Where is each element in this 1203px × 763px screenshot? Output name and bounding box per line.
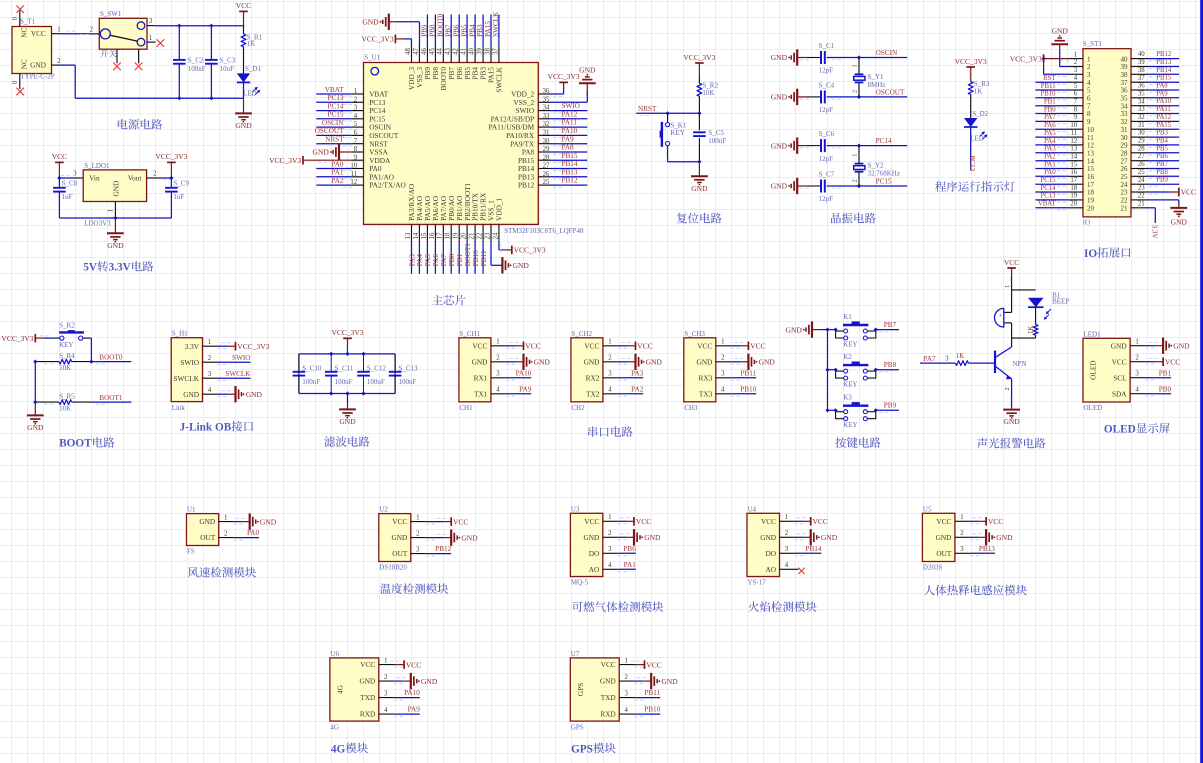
- wire S_C4 left: [798, 96, 821, 98]
- wire net PC14 at ST1 pin 18: [1035, 192, 1068, 194]
- no-connect T1 top: [16, 5, 24, 13]
- wire net PB8 at ST1 pin 25: [1147, 176, 1179, 178]
- svg-text:OUT: OUT: [392, 549, 408, 558]
- wire net PB4 at ST1 pin 29: [1147, 145, 1179, 147]
- svg-text:VCC: VCC: [1165, 357, 1180, 366]
- wire keys bus: [813, 330, 836, 411]
- svg-text:32: 32: [543, 121, 550, 128]
- svg-text:KEY: KEY: [843, 421, 857, 429]
- svg-text:PC15: PC15: [876, 178, 892, 186]
- svg-text:10K: 10K: [59, 405, 71, 413]
- svg-text:3: 3: [73, 171, 77, 178]
- svg-text:PB14: PB14: [562, 160, 578, 168]
- svg-text:GND: GND: [579, 65, 596, 74]
- svg-text:VCC: VCC: [636, 517, 651, 526]
- U1 pin 4 PC15: [351, 113, 386, 124]
- svg-text:3: 3: [496, 371, 500, 378]
- svg-text:2: 2: [852, 90, 859, 93]
- svg-text:38: 38: [1138, 67, 1145, 74]
- svg-text:39: 39: [1121, 63, 1129, 71]
- wire LDO bottom rail: [59, 217, 171, 219]
- svg-text:GND: GND: [759, 358, 776, 367]
- svg-text:1: 1: [624, 657, 627, 664]
- connector S_CH2: [571, 330, 603, 412]
- wire emitter to GND: [1004, 379, 1012, 409]
- title 可燃气体检测模块: [572, 601, 583, 611]
- svg-text:1: 1: [354, 88, 357, 95]
- svg-text:VCC: VCC: [813, 517, 828, 526]
- svg-text:LED1: LED1: [1084, 330, 1102, 338]
- U1 pin 20 PB2/BOOT1: [461, 224, 468, 241]
- wire K3 to PB9: [876, 410, 899, 412]
- connector U7: [570, 650, 619, 731]
- svg-text:1: 1: [851, 154, 858, 157]
- wire net SWIO at U1 pin 34: [551, 111, 588, 113]
- junction Y1 top: [857, 55, 861, 59]
- svg-text:0: 0: [12, 80, 19, 84]
- svg-text:100nF: 100nF: [302, 378, 320, 386]
- U1 pin 36 VDD_2: [511, 88, 550, 99]
- svg-text:1: 1: [224, 514, 227, 521]
- S_CH2 pin 4 wire: [603, 387, 643, 397]
- svg-text:RST: RST: [1043, 75, 1056, 82]
- ST1 pin 14: [1068, 154, 1095, 166]
- S_H1 pin 1 wire: [203, 339, 236, 349]
- U1 pin 21 PB10/TX: [469, 224, 476, 241]
- wire net PB10 at ST1 pin 6: [1035, 98, 1068, 100]
- svg-text:PB10: PB10: [1040, 91, 1056, 98]
- junction filter C11 top: [329, 352, 333, 356]
- svg-text:S_C10: S_C10: [302, 364, 322, 372]
- svg-text:2: 2: [608, 530, 612, 537]
- svg-text:KEY: KEY: [59, 341, 73, 349]
- svg-text:S_C2: S_C2: [188, 57, 204, 65]
- svg-text:S_H1: S_H1: [172, 330, 188, 338]
- svg-text:KEY: KEY: [670, 129, 684, 137]
- wire net PB5 at ST1 pin 28: [1147, 153, 1179, 155]
- ST1 pin 7: [1068, 99, 1091, 111]
- U1 pin 40 PB4: [469, 46, 476, 63]
- wire net PA11 at U1 pin 32: [551, 127, 588, 129]
- power flag VCC at S_CH3 pin 1: [748, 342, 765, 351]
- U6 pin 1 wire: [379, 657, 404, 667]
- svg-text:1: 1: [1074, 51, 1077, 58]
- SW1 pin 1: [147, 35, 156, 42]
- U4 pin 4 wire: [780, 562, 799, 569]
- wire net PB1 at U1 pin 19: [458, 241, 459, 273]
- T1 pin 2: [52, 58, 62, 65]
- power flag VCC_3V3 indicator: [955, 57, 987, 81]
- connector S_H1: [171, 330, 202, 412]
- svg-text:4: 4: [608, 562, 612, 569]
- svg-text:U1: U1: [187, 506, 196, 514]
- S_CH1 pin 4 wire: [491, 387, 531, 397]
- svg-text:PA12: PA12: [1156, 114, 1171, 121]
- U7 pin 1 wire: [619, 657, 644, 667]
- wire net OSCOUT at U1 pin 6: [316, 135, 352, 137]
- svg-text:28: 28: [543, 154, 550, 161]
- capacitor C4: [819, 81, 835, 114]
- svg-text:OSCOUT: OSCOUT: [315, 127, 344, 135]
- wire net RST at ST1 pin 4: [1035, 82, 1068, 84]
- power flag VCC at S_CH1 pin 1: [524, 342, 541, 351]
- junction NRST at R2: [697, 111, 701, 115]
- svg-text:DO: DO: [589, 549, 600, 558]
- ST1 pin 35: [1121, 90, 1148, 102]
- svg-text:GND: GND: [235, 121, 252, 130]
- ground at U1 VSSA: [313, 144, 339, 160]
- ST1 pin 9: [1068, 114, 1091, 126]
- svg-text:100nF: 100nF: [399, 378, 417, 386]
- wire S_C4 to crystal: [800, 97, 907, 99]
- ST1 pin 15: [1068, 161, 1095, 173]
- U5 pin 1 wire: [955, 514, 986, 524]
- svg-text:U3: U3: [571, 505, 580, 513]
- U1 pin 43 PB7: [445, 46, 452, 63]
- U2 pin 2 wire: [411, 530, 451, 540]
- capacitor C8: [53, 178, 78, 218]
- svg-text:1uF: 1uF: [62, 193, 73, 201]
- svg-text:9: 9: [354, 154, 358, 161]
- wire net PA15 at ST1 pin 31: [1147, 129, 1179, 131]
- svg-text:OLED: OLED: [1104, 424, 1136, 436]
- ST1 pin 29: [1121, 138, 1148, 150]
- wire net PB6 at U1 pin 42: [458, 15, 459, 48]
- ground at S_H1 pin 4: [236, 386, 263, 402]
- wire net PC14 at U1 pin 3: [316, 111, 352, 113]
- wire net PA4 at U1 pin 14: [418, 241, 419, 273]
- U1 pin 13 PA3/RX/AO: [405, 224, 412, 241]
- junction K3 right: [874, 408, 878, 412]
- SW1 pin 2: [90, 26, 100, 34]
- svg-text:NC: NC: [20, 59, 28, 69]
- U1 pin 30 PA9/TX: [510, 138, 550, 149]
- svg-text:19: 19: [453, 232, 460, 239]
- wire net PB9 at ST1 pin 24: [1147, 184, 1179, 186]
- pushbutton K3: [836, 394, 876, 429]
- svg-text:PB13: PB13: [562, 168, 578, 176]
- svg-text:34: 34: [543, 105, 550, 112]
- title 火焰检测模块: [748, 601, 759, 612]
- svg-text:39: 39: [476, 48, 483, 55]
- svg-text:VCC: VCC: [52, 152, 67, 161]
- svg-text:PA2/TX/AO: PA2/TX/AO: [369, 181, 406, 190]
- svg-text:25: 25: [1121, 173, 1129, 181]
- svg-text:3: 3: [1087, 71, 1091, 79]
- title 温度检测模块: [380, 583, 391, 593]
- title 复位电路: [677, 213, 687, 224]
- U1 pin 38 PA15: [484, 46, 491, 63]
- svg-text:VCC: VCC: [360, 660, 375, 669]
- svg-text:S_LDO1: S_LDO1: [84, 162, 110, 170]
- svg-text:K1: K1: [843, 313, 852, 321]
- svg-text:GND: GND: [461, 533, 478, 542]
- svg-text:PA5: PA5: [1044, 130, 1056, 137]
- svg-text:22: 22: [1121, 197, 1129, 205]
- svg-text:PA0: PA0: [247, 529, 260, 537]
- svg-text:16: 16: [1087, 173, 1095, 181]
- svg-text:VCC: VCC: [1004, 258, 1019, 267]
- power flag VCC at S_CH2 pin 1: [636, 342, 653, 351]
- svg-text:PA8: PA8: [1156, 83, 1168, 90]
- svg-text:S_U1: S_U1: [364, 54, 380, 62]
- svg-text:12: 12: [350, 179, 357, 186]
- ST1 pin 22: [1121, 193, 1148, 205]
- svg-text:1: 1: [496, 339, 499, 346]
- wire net PA3 at ST1 pin 13: [1035, 153, 1068, 155]
- svg-text:VCC_3V3: VCC_3V3: [1, 334, 33, 343]
- svg-text:VCC: VCC: [936, 517, 951, 526]
- svg-text:S_C1: S_C1: [819, 42, 835, 50]
- svg-text:PA10: PA10: [562, 127, 578, 135]
- svg-text:38: 38: [1121, 71, 1129, 79]
- svg-text:PA6: PA6: [432, 254, 440, 267]
- svg-text:PA7: PA7: [1044, 114, 1056, 121]
- svg-text:RX2: RX2: [586, 373, 600, 382]
- svg-text:PB8: PB8: [1156, 169, 1168, 176]
- U1 pin 28 PB15: [518, 154, 551, 165]
- svg-text:PA3: PA3: [631, 369, 644, 377]
- wire K1 to PB7: [876, 330, 899, 332]
- ST1 pin 37: [1121, 75, 1148, 87]
- U1 pin 16 PA6/AO: [429, 224, 436, 241]
- wire net PC13 at U1 pin 2: [316, 102, 352, 104]
- svg-text:2: 2: [608, 355, 612, 362]
- svg-text:4: 4: [208, 387, 212, 394]
- capacitor C10: [293, 354, 322, 394]
- svg-text:12pF: 12pF: [819, 195, 834, 203]
- svg-text:S_D2: S_D2: [972, 110, 988, 118]
- svg-text:VCC: VCC: [601, 660, 616, 669]
- wire net PA9 at ST1 pin 35: [1147, 98, 1179, 100]
- svg-text:S_Y2: S_Y2: [868, 161, 884, 169]
- svg-text:TXD: TXD: [360, 693, 375, 702]
- svg-text:Vin: Vin: [89, 174, 100, 183]
- svg-text:PA15: PA15: [1156, 122, 1171, 129]
- ground at S_CH2 pin 2: [636, 354, 663, 370]
- connector U1: [187, 506, 219, 556]
- svg-text:U4: U4: [748, 505, 757, 513]
- ground at U1 VSS_1: [502, 257, 529, 273]
- power flag VCC_3V3 at S_H1 pin 1: [236, 342, 270, 351]
- ST1 pin 31: [1121, 122, 1148, 134]
- svg-text:GND: GND: [1173, 341, 1190, 350]
- ST1 pin 36: [1121, 83, 1148, 95]
- svg-text:4: 4: [785, 562, 789, 569]
- ST1 pin 12: [1068, 138, 1095, 150]
- ST1 pin 27: [1121, 153, 1148, 165]
- U1 pin 23 VSS_1: [484, 224, 491, 241]
- svg-text:SDA: SDA: [1112, 389, 1127, 398]
- wire net PB15 at ST1 pin 37: [1147, 82, 1179, 84]
- svg-text:100nF: 100nF: [335, 378, 353, 386]
- svg-text:NPN: NPN: [1013, 360, 1027, 368]
- svg-text:38: 38: [484, 48, 491, 55]
- svg-text:13: 13: [1070, 146, 1077, 153]
- svg-text:VCC_3V3: VCC_3V3: [955, 57, 987, 66]
- U1 pin 45 PB8: [429, 46, 436, 63]
- wire net BOOT1 at U1 pin 20: [466, 241, 467, 273]
- wire PA7 to base: [920, 355, 955, 363]
- svg-text:46: 46: [421, 48, 428, 55]
- wire ST1 pin1 to power: [1044, 59, 1069, 61]
- svg-text:20: 20: [1070, 201, 1077, 208]
- svg-text:34: 34: [1121, 102, 1129, 110]
- svg-text:36: 36: [1138, 83, 1145, 90]
- U2 pin 1 wire: [411, 514, 451, 524]
- svg-text:S_C12: S_C12: [367, 364, 387, 372]
- ST1 pin 4: [1068, 75, 1091, 87]
- svg-text:BOOT0: BOOT0: [437, 13, 445, 37]
- svg-text:3: 3: [608, 546, 612, 553]
- U1 pin 46 PB9: [421, 46, 428, 63]
- svg-text:2: 2: [960, 530, 964, 537]
- svg-text:GND: GND: [646, 358, 663, 367]
- svg-text:18: 18: [1087, 189, 1095, 197]
- svg-text:29: 29: [1121, 142, 1129, 150]
- svg-text:GND: GND: [313, 148, 330, 157]
- svg-text:OUT: OUT: [936, 549, 952, 558]
- wire S_C6 left: [798, 145, 821, 147]
- svg-text:3: 3: [149, 18, 153, 25]
- wire keys bus K3: [828, 409, 836, 411]
- svg-text:S_T1: S_T1: [20, 18, 36, 26]
- svg-text:VCC_3V3: VCC_3V3: [155, 152, 187, 161]
- svg-text:21: 21: [469, 233, 476, 240]
- svg-text:PA10: PA10: [404, 689, 420, 697]
- U6 pin 2 wire: [379, 674, 411, 684]
- junction at C3 top: [209, 24, 213, 28]
- pushbutton K1: [836, 313, 876, 348]
- U1 pin 9 VDDA: [351, 154, 391, 165]
- svg-text:31: 31: [543, 130, 550, 137]
- svg-text:21: 21: [1138, 200, 1145, 207]
- connector U2: [379, 506, 411, 572]
- svg-text:22: 22: [1138, 193, 1145, 200]
- LED1 pin 1 wire: [1130, 339, 1163, 349]
- svg-text:1K: 1K: [974, 88, 983, 96]
- svg-text:41: 41: [461, 48, 468, 55]
- svg-text:PB1: PB1: [1159, 369, 1172, 377]
- power flag VCC_3V3 at U1 VDD_2: [548, 72, 580, 88]
- wire net PA6 at ST1 pin 10: [1035, 129, 1068, 131]
- title 主芯片: [432, 295, 443, 305]
- svg-text:GND: GND: [472, 357, 488, 366]
- svg-text:PB13: PB13: [979, 545, 995, 553]
- power flag VCC at LDO: [52, 152, 67, 178]
- wire net PB12 at U1 pin 25: [551, 185, 588, 187]
- svg-text:2: 2: [852, 179, 859, 182]
- U1 pin 12 PA2/TX/AO: [350, 179, 405, 190]
- svg-text:PB15: PB15: [1156, 75, 1172, 82]
- S_H1 pin 3 wire: [203, 371, 251, 381]
- svg-text:DS18B20: DS18B20: [379, 564, 407, 572]
- wire ST1 pin3 to power: [1044, 59, 1068, 77]
- wire S_C7 left: [798, 185, 821, 187]
- ground at S_CH3 pin 2: [748, 354, 775, 370]
- U6 pin 3 wire: [379, 690, 420, 700]
- ST1 pin 20: [1068, 201, 1095, 213]
- U1 pin 10 PA0: [350, 163, 381, 174]
- svg-text:PA2: PA2: [1044, 154, 1056, 161]
- svg-text:S_D1: S_D1: [245, 65, 261, 73]
- wire net PB14 at ST1 pin 38: [1147, 74, 1179, 76]
- SW1 label 开关: [100, 50, 108, 58]
- svg-text:3: 3: [721, 371, 725, 378]
- svg-text:6: 6: [354, 130, 358, 137]
- ST1 pin 10: [1068, 122, 1095, 134]
- wire net PA9 at U1 pin 30: [551, 144, 588, 146]
- wire alarm bottom: [1012, 338, 1036, 347]
- svg-text:30: 30: [543, 138, 550, 145]
- svg-text:J-Link OB: J-Link OB: [180, 422, 232, 434]
- svg-text:PB7: PB7: [444, 24, 452, 37]
- svg-text:S_C4: S_C4: [819, 81, 835, 89]
- svg-text:PA9: PA9: [408, 706, 421, 714]
- svg-text:PB12: PB12: [562, 177, 578, 185]
- wire net PC13 at ST1 pin 19: [1035, 200, 1068, 202]
- resistor R4: [59, 352, 75, 372]
- svg-text:PC14: PC14: [328, 102, 344, 110]
- svg-text:1K: 1K: [247, 40, 256, 48]
- capacitor C11: [325, 354, 354, 394]
- S_H1 pin 2 wire: [203, 355, 251, 365]
- svg-text:VCC_3V3: VCC_3V3: [683, 53, 715, 62]
- svg-text:GND: GND: [30, 61, 46, 70]
- svg-text:S_C9: S_C9: [173, 180, 189, 188]
- svg-text:25: 25: [1138, 169, 1145, 176]
- svg-text:GPS: GPS: [576, 683, 585, 696]
- wire net PA10 at ST1 pin 34: [1147, 106, 1179, 108]
- svg-text:GND: GND: [936, 533, 952, 542]
- ground LDO: [107, 218, 124, 250]
- U1 pin 33 PA12/USB/DP: [491, 113, 551, 124]
- power flag VCC alarm: [1004, 258, 1019, 276]
- svg-text:PA2: PA2: [331, 177, 344, 185]
- junction keys bus K3: [825, 408, 829, 412]
- svg-text:35: 35: [543, 96, 550, 103]
- wire net PA8 at U1 pin 29: [551, 152, 588, 154]
- svg-text:OUT: OUT: [200, 533, 216, 542]
- junction LDO Vout: [169, 176, 173, 180]
- svg-text:AO: AO: [589, 565, 600, 574]
- junction filter GND: [345, 391, 349, 395]
- junction K1 right: [874, 328, 878, 332]
- svg-text:PA12: PA12: [562, 110, 578, 118]
- title 滤波电路: [324, 436, 335, 447]
- svg-text:LED: LED: [243, 90, 257, 98]
- svg-text:PA4: PA4: [1044, 138, 1056, 145]
- svg-text:NC: NC: [20, 28, 28, 38]
- S_CH1 pin 2 wire: [491, 355, 524, 365]
- svg-text:16: 16: [1070, 169, 1077, 176]
- U1 pin 26 PB13: [518, 171, 551, 182]
- wire NRST: [636, 113, 699, 115]
- U1 polarity mark: [371, 67, 379, 75]
- svg-text:29: 29: [543, 146, 550, 153]
- junction filter C11 bottom: [329, 391, 333, 395]
- junction filter C12 bottom: [361, 391, 365, 395]
- wire U1 VSS_1 to ground: [490, 241, 502, 265]
- svg-text:LED: LED: [970, 134, 984, 142]
- svg-text:3.3V: 3.3V: [109, 262, 132, 274]
- svg-text:GND: GND: [1111, 341, 1127, 350]
- U1 pin 44 BOOT0: [437, 46, 444, 63]
- wire BOOT0 rail: [35, 362, 131, 364]
- no-connect SW1 pin 1: [157, 39, 165, 47]
- svg-text:BOOT: BOOT: [59, 438, 92, 450]
- svg-text:SWIO: SWIO: [180, 358, 199, 367]
